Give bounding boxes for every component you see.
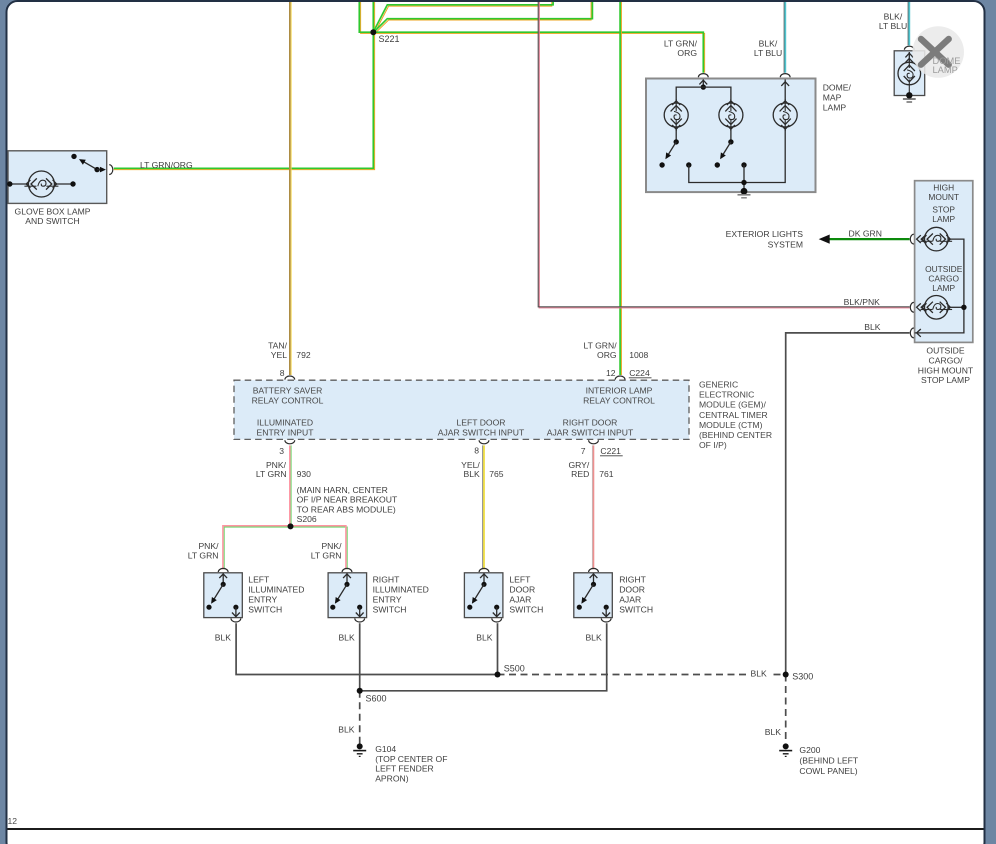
connector into dome lamp — [904, 46, 914, 50]
glove box feed node — [7, 181, 12, 186]
wire TAN/YEL 792 from top to GEM pin 8 — [290, 2, 292, 375]
wire BLK/LT BLU from top to dome lamp (small box) — [907, 2, 909, 45]
wire BLK left door ajar switch to S500 — [497, 623, 499, 674]
close button X — [921, 39, 949, 65]
dome switch 2 wire — [730, 127, 732, 142]
dome feed arrow left — [699, 80, 707, 84]
dome lamp feed arrows — [905, 53, 913, 57]
left door ajar switch: switch feed arrow — [480, 574, 488, 578]
dome switch 1 contact — [659, 162, 664, 167]
svg-text:MODULE (CTM): MODULE (CTM) — [699, 420, 763, 430]
svg-text:RIGHT: RIGHT — [373, 575, 400, 585]
wire BLK dashed S300 to G200 — [785, 675, 787, 744]
right door ajar switch: switch left contact — [577, 605, 582, 610]
svg-text:BLK: BLK — [338, 632, 355, 642]
svg-text:792: 792 — [296, 350, 311, 360]
svg-text:BLK: BLK — [864, 322, 881, 332]
svg-text:ENTRY INPUT: ENTRY INPUT — [257, 427, 315, 437]
node glove lamp output — [70, 181, 75, 186]
svg-text:SYSTEM: SYSTEM — [768, 240, 803, 250]
svg-text:CARGO: CARGO — [928, 274, 959, 284]
outside cargo / high mount stop lamp box — [915, 181, 973, 343]
svg-text:BLK: BLK — [215, 632, 232, 642]
diagram bottom frame line — [8, 828, 984, 830]
svg-text:S500: S500 — [504, 664, 525, 674]
svg-text:LT GRN: LT GRN — [188, 551, 219, 561]
svg-text:APRON): APRON) — [375, 773, 409, 783]
connector C cargo ground out — [910, 328, 914, 338]
glove switch top contact — [71, 154, 76, 159]
svg-text:LAMP: LAMP — [932, 283, 955, 293]
right illuminated entry switch: connector out of switch — [355, 618, 365, 622]
connector GEM pin 8 bottom — [479, 440, 489, 444]
GEM/CTM module box — [234, 380, 689, 439]
svg-text:LAMP: LAMP — [823, 103, 847, 113]
svg-text:RELAY CONTROL: RELAY CONTROL — [583, 395, 655, 405]
svg-text:BATTERY SAVER: BATTERY SAVER — [253, 385, 323, 395]
left door ajar switch: switch blade — [474, 584, 484, 600]
wire BLK/PNK from top down and right to outside cargo lamp — [539, 2, 909, 308]
svg-text:LEFT: LEFT — [509, 575, 531, 585]
svg-text:S600: S600 — [366, 693, 387, 703]
right door ajar switch: switch pivot — [591, 582, 596, 587]
lamp dome 2 — [719, 103, 743, 127]
svg-text:G104: G104 — [375, 744, 396, 754]
svg-text:7: 7 — [581, 446, 586, 456]
glove box lamp to switch wire — [54, 183, 73, 185]
right illuminated entry switch: switch output wire — [359, 607, 361, 617]
node S500 — [495, 672, 501, 678]
svg-text:LT GRN/ORG: LT GRN/ORG — [140, 160, 193, 170]
svg-text:MOUNT: MOUNT — [928, 192, 959, 202]
connector C into cargo lamp — [910, 302, 914, 312]
svg-text:HIGH MOUNT: HIGH MOUNT — [918, 365, 974, 375]
connector GEM pin 3 bottom — [285, 440, 295, 444]
ground G104 — [357, 743, 363, 749]
svg-text:ORG: ORG — [677, 48, 697, 58]
right door ajar switch: switch blade — [584, 584, 594, 600]
left illuminated entry switch: switch output wire — [235, 607, 237, 617]
svg-text:(TOP CENTER OF: (TOP CENTER OF — [375, 754, 447, 764]
wire PNK/LT GRN S206 to right illuminated entry switch — [290, 527, 347, 569]
glove switch blade — [82, 161, 98, 170]
svg-text:STOP: STOP — [932, 204, 955, 214]
svg-text:STOP LAMP: STOP LAMP — [921, 375, 970, 385]
svg-text:LAMP: LAMP — [933, 65, 958, 75]
stop lamp connector arrows — [917, 235, 921, 243]
svg-text:BLK: BLK — [765, 727, 782, 737]
svg-text:DK GRN: DK GRN — [849, 228, 882, 238]
svg-text:BLK/: BLK/ — [759, 39, 778, 49]
svg-text:DOOR: DOOR — [619, 585, 645, 595]
left illuminated entry switch: connector out of switch — [231, 618, 241, 622]
ground dome/map lamp — [738, 194, 751, 196]
glove switch blade arrowhead — [79, 159, 86, 165]
connector C into stop lamp — [910, 234, 914, 244]
svg-text:OUTSIDE: OUTSIDE — [925, 264, 963, 274]
left door ajar switch: switch output arrow — [493, 613, 501, 617]
svg-text:BLK/PNK: BLK/PNK — [844, 297, 881, 307]
svg-text:OF I/P NEAR BREAKOUT: OF I/P NEAR BREAKOUT — [297, 495, 398, 505]
svg-text:EXTERIOR LIGHTS: EXTERIOR LIGHTS — [726, 229, 804, 239]
wire BLK dashed S600 to G104 — [359, 691, 361, 744]
ground dome lamp — [903, 98, 916, 100]
svg-text:AJAR SWITCH INPUT: AJAR SWITCH INPUT — [547, 427, 634, 437]
right door ajar switch: connector into switch — [589, 568, 599, 572]
dome switch 1 wire — [675, 127, 677, 142]
svg-text:AJAR SWITCH INPUT: AJAR SWITCH INPUT — [438, 427, 525, 437]
right door ajar switch: switch right contact — [604, 605, 609, 610]
right door ajar switch: switch output wire — [605, 607, 607, 617]
svg-text:BLK: BLK — [464, 469, 481, 479]
dome switch 2 arrowhead — [720, 152, 726, 159]
svg-text:GENERIC: GENERIC — [699, 379, 738, 389]
left door ajar switch: switch left contact — [467, 605, 472, 610]
svg-text:LEFT DOOR: LEFT DOOR — [456, 417, 505, 427]
right illuminated entry switch: switch blade arrowhead — [335, 597, 341, 604]
svg-text:12: 12 — [606, 368, 616, 378]
svg-text:SWITCH: SWITCH — [248, 605, 282, 615]
svg-text:LAMP: LAMP — [932, 214, 955, 224]
svg-text:BLK: BLK — [338, 725, 355, 735]
svg-text:COWL PANEL): COWL PANEL) — [799, 766, 857, 776]
wire LT GRN/ORG S221 diagonal to top-right exit 2 — [375, 2, 591, 33]
wire LT GRN/ORG 1008 from top to GEM pin 12 — [620, 2, 622, 375]
wire LT GRN/ORG stub from top into S221 (left) — [361, 2, 371, 33]
connector at glove box output — [109, 165, 113, 175]
lamp dome lamp — [898, 62, 921, 85]
svg-text:ELECTRONIC: ELECTRONIC — [699, 390, 754, 400]
svg-text:GLOVE BOX LAMP: GLOVE BOX LAMP — [15, 207, 91, 217]
wire BLK right illuminated entry switch to S600 — [359, 623, 361, 691]
svg-text:765: 765 — [489, 469, 504, 479]
right illuminated entry switch: switch blade — [337, 584, 347, 600]
dome switch 1 arrowhead — [665, 152, 671, 159]
left door ajar switch: connector out of switch — [492, 618, 502, 622]
svg-text:8: 8 — [280, 368, 285, 378]
svg-text:930: 930 — [297, 469, 312, 479]
svg-text:ILLUMINATED: ILLUMINATED — [248, 585, 304, 595]
connector into dome/map lamp right — [780, 74, 790, 78]
svg-text:LT BLU: LT BLU — [879, 21, 907, 31]
right door ajar switch: connector out of switch — [601, 618, 611, 622]
svg-text:ENTRY: ENTRY — [373, 595, 402, 605]
node S300 — [783, 672, 789, 678]
svg-text:3: 3 — [279, 446, 284, 456]
lamp glove box — [28, 171, 54, 197]
glove switch output arrowhead — [100, 167, 106, 173]
svg-text:S221: S221 — [379, 34, 400, 44]
dome switch 1 blade — [667, 142, 676, 156]
dome/map lamp box — [646, 79, 816, 193]
label BLK on dashed run — [747, 668, 773, 679]
dome ground node — [741, 188, 748, 195]
cargo internal lamp2 tie — [949, 306, 964, 308]
svg-text:DOME/: DOME/ — [823, 83, 852, 93]
dome ground drop — [743, 165, 745, 191]
wire YEL/BLK 765 from GEM pin 8 to left door ajar switch — [482, 445, 484, 569]
svg-text:(MAIN HARN, CENTER: (MAIN HARN, CENTER — [297, 485, 388, 495]
dome contact b — [686, 162, 691, 167]
svg-text:ILLUMINATED: ILLUMINATED — [373, 585, 429, 595]
svg-text:DOOR: DOOR — [509, 585, 535, 595]
right illuminated entry switch: switch output arrow — [356, 613, 364, 617]
wire DK GRN from high mount stop lamp to exterior lights system — [830, 238, 910, 240]
dome lamp ground node — [906, 92, 912, 98]
cargo internal ground wire — [915, 239, 964, 333]
lamp dome 1 — [664, 103, 688, 127]
svg-text:LEFT: LEFT — [248, 575, 270, 585]
svg-text:TAN/: TAN/ — [268, 341, 288, 351]
wire BLK/LT BLU from top to dome/map lamp (right) — [783, 2, 785, 73]
wire LT GRN/ORG from top through S221 down and left to glove box lamp — [114, 2, 375, 170]
svg-text:SWITCH: SWITCH — [509, 605, 543, 615]
svg-text:BLK: BLK — [751, 669, 768, 679]
glove switch pivot — [94, 167, 99, 172]
left door ajar switch: switch pivot — [481, 582, 486, 587]
connector into dome/map lamp left — [698, 74, 708, 78]
connector GEM pin 8 top — [285, 376, 295, 380]
svg-text:TO REAR ABS MODULE): TO REAR ABS MODULE) — [297, 504, 396, 514]
ground G200 — [783, 743, 789, 749]
svg-text:PNK/: PNK/ — [198, 541, 219, 551]
svg-text:PNK/: PNK/ — [321, 541, 342, 551]
wire GRY/RED 761 from GEM pin 7 to right door ajar switch — [591, 445, 593, 569]
close button circle — [912, 26, 964, 78]
svg-text:AND SWITCH: AND SWITCH — [25, 216, 79, 226]
dome switch 2 contact — [715, 162, 720, 167]
dome ground rail — [689, 127, 785, 183]
wire PNK/LT GRN S206 to left illuminated entry switch — [224, 527, 290, 569]
wire PNK/LT GRN 930 from GEM pin 3 to S206 — [290, 445, 292, 526]
svg-text:HIGH: HIGH — [933, 183, 954, 193]
left illuminated entry switch: switch output arrow — [232, 613, 240, 617]
wire BLK right door ajar switch to S600 — [360, 623, 607, 691]
svg-text:RIGHT DOOR: RIGHT DOOR — [563, 417, 618, 427]
dome split rail — [676, 87, 731, 100]
svg-text:LT GRN: LT GRN — [256, 469, 287, 479]
dome lamp small box — [894, 51, 925, 96]
connector GEM pin 12 top (C224) — [615, 376, 625, 380]
svg-text:SWITCH: SWITCH — [373, 605, 407, 615]
svg-text:ORG: ORG — [597, 350, 617, 360]
right door ajar switch: right box — [574, 573, 613, 618]
right door ajar switch: switch feed arrow — [590, 574, 598, 578]
svg-text:CARGO/: CARGO/ — [929, 355, 964, 365]
svg-text:8: 8 — [474, 446, 479, 456]
right illuminated entry switch: switch right contact — [357, 605, 362, 610]
right illuminated entry switch: connector into switch — [342, 568, 352, 572]
svg-text:LT GRN/: LT GRN/ — [583, 341, 617, 351]
lamp high mount stop — [925, 227, 949, 251]
svg-text:12: 12 — [8, 816, 18, 826]
left door ajar switch: left box — [464, 573, 503, 618]
node dome feed split — [701, 84, 706, 89]
glove switch output wire — [97, 169, 100, 171]
node S206 — [288, 523, 294, 529]
wire LT GRN/ORG S221 diagonal to top-right exit 1 — [375, 2, 552, 32]
svg-text:MAP: MAP — [823, 93, 842, 103]
right door ajar switch: switch output arrow — [602, 613, 610, 617]
svg-text:BLK: BLK — [585, 632, 602, 642]
node cargo internal — [961, 305, 966, 310]
svg-text:LEFT FENDER: LEFT FENDER — [375, 764, 434, 774]
lamp dome 3 — [773, 103, 797, 127]
svg-text:ENTRY: ENTRY — [248, 595, 277, 605]
svg-text:ILLUMINATED: ILLUMINATED — [257, 417, 313, 427]
cargo lamp connector arrows — [917, 303, 921, 311]
svg-text:AJAR: AJAR — [509, 595, 531, 605]
wire LT GRN/ORG S221 to dome/map lamp — [375, 33, 705, 72]
right illuminated entry switch: switch feed arrow — [343, 574, 351, 578]
left illuminated entry switch: switch right contact — [233, 605, 238, 610]
svg-text:761: 761 — [599, 469, 614, 479]
node S600 — [357, 688, 363, 694]
glove box feed wire — [8, 183, 28, 185]
dome contact d — [741, 162, 746, 167]
right door ajar switch: switch blade arrowhead — [581, 597, 587, 604]
svg-text:OF I/P): OF I/P) — [699, 440, 727, 450]
svg-text:(BEHIND LEFT: (BEHIND LEFT — [799, 755, 858, 765]
left illuminated entry switch: switch feed arrow — [219, 574, 227, 578]
dome switch 2 pivot — [728, 139, 733, 144]
connector GEM pin 7 bottom (C221) — [589, 440, 599, 444]
svg-text:BLK: BLK — [476, 632, 493, 642]
svg-text:MODULE (GEM)/: MODULE (GEM)/ — [699, 400, 766, 410]
dome feed arrow right — [781, 82, 789, 86]
svg-text:LT GRN/: LT GRN/ — [664, 39, 698, 49]
svg-text:CENTRAL TIMER: CENTRAL TIMER — [699, 410, 768, 420]
svg-text:LT BLU: LT BLU — [754, 48, 782, 58]
svg-text:S300: S300 — [792, 671, 813, 681]
svg-text:YEL: YEL — [271, 350, 287, 360]
left illuminated entry switch: switch pivot — [221, 582, 226, 587]
left illuminated entry switch: connector into switch — [218, 568, 228, 572]
svg-text:OUTSIDE: OUTSIDE — [926, 346, 964, 356]
left door ajar switch: switch blade arrowhead — [472, 597, 478, 604]
svg-text:LT GRN: LT GRN — [311, 551, 342, 561]
glove box lamp and switch box — [8, 151, 107, 204]
dome switch 1 pivot — [674, 139, 679, 144]
svg-text:S206: S206 — [297, 514, 317, 524]
left illuminated entry switch: switch blade — [213, 584, 223, 600]
svg-text:C224: C224 — [629, 368, 650, 378]
left door ajar switch: switch right contact — [494, 605, 499, 610]
wire BLK left illuminated entry switch to S500 — [236, 623, 497, 674]
left illuminated entry switch: switch left contact — [206, 605, 211, 610]
wire BLK from outside cargo lamp left and down to S300 — [786, 333, 910, 675]
svg-text:G200: G200 — [799, 745, 820, 755]
left door ajar switch: connector into switch — [479, 568, 489, 572]
right illuminated entry switch: switch pivot — [344, 582, 349, 587]
wire BLK dashed S500 to S300 — [498, 674, 786, 676]
right illuminated entry switch: switch left contact — [330, 605, 335, 610]
svg-text:RED: RED — [571, 469, 589, 479]
svg-text:SWITCH: SWITCH — [619, 605, 653, 615]
node S221 — [370, 29, 376, 35]
cargo ground out arrow — [917, 329, 921, 337]
arrowhead to exterior lights system — [819, 235, 830, 244]
left illuminated entry switch: switch blade arrowhead — [211, 597, 217, 604]
svg-text:C221: C221 — [600, 446, 621, 456]
node dome ground rail — [741, 180, 746, 185]
svg-text:AJAR: AJAR — [619, 595, 641, 605]
svg-text:1008: 1008 — [629, 350, 648, 360]
svg-text:(BEHIND CENTER: (BEHIND CENTER — [699, 430, 772, 440]
left door ajar switch: switch output wire — [496, 607, 498, 617]
svg-text:RIGHT: RIGHT — [619, 575, 646, 585]
lamp outside cargo — [925, 296, 949, 320]
dome switch 2 blade — [722, 142, 731, 156]
left illuminated entry switch: left box — [204, 573, 243, 618]
svg-text:RELAY CONTROL: RELAY CONTROL — [252, 395, 324, 405]
right illuminated entry switch: right box — [328, 573, 367, 618]
svg-text:INTERIOR LAMP: INTERIOR LAMP — [586, 385, 653, 395]
